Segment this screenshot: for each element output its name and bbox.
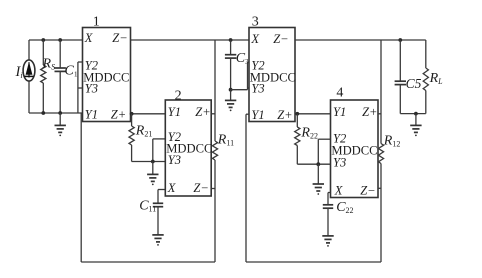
text MDDCC block 2	[166, 142, 212, 156]
ground under C22	[322, 236, 333, 247]
pin label Y2 block 1	[85, 58, 98, 72]
designator 3 for block 3	[252, 15, 259, 30]
node dot Y-tie ground block 2	[151, 160, 155, 164]
resistor R12	[378, 144, 383, 164]
pin label Y1 block 1	[85, 108, 98, 122]
svg-text:X: X	[167, 181, 177, 195]
pin label Z+ block 1	[111, 108, 126, 122]
wire feedback loop 2 bottom	[246, 261, 381, 263]
wire Z- stub block 2	[211, 188, 215, 190]
label C3	[236, 51, 249, 66]
ground under C3	[225, 90, 236, 112]
pin label Y2 block 4	[333, 131, 346, 145]
capacitor C1	[55, 40, 66, 113]
svg-text:X: X	[250, 32, 260, 46]
svg-text:Y3: Y3	[168, 153, 181, 167]
wire feedback loop 2 right / R12 branch	[380, 40, 382, 262]
capacitor C5	[395, 40, 406, 114]
svg-text:Y3: Y3	[251, 81, 264, 95]
wire R21 bottom to Y3 block 2	[132, 161, 166, 163]
wire load bottom	[400, 113, 426, 115]
node dot C3 top	[229, 38, 233, 42]
label C5	[406, 76, 422, 91]
pin label Y3 block 3	[251, 81, 264, 95]
svg-text:Y1: Y1	[251, 108, 264, 122]
wire Y2-Y3 tie block 1	[78, 62, 83, 113]
label C11	[139, 199, 156, 214]
wire feedback loop 1 left side	[80, 113, 82, 262]
ground at Y2/Y3 block 2	[147, 162, 158, 186]
pin label Z+ block 4	[362, 105, 377, 119]
node dot R22 top	[295, 112, 299, 116]
wire feedback loop 1 bottom	[81, 261, 215, 263]
resistor R22	[295, 114, 300, 164]
wire feedback loop 1 right / R11 branch	[214, 40, 216, 262]
text MDDCC block 4	[331, 143, 377, 157]
capacitor C3	[225, 40, 236, 90]
node dot load ground	[414, 112, 418, 116]
MDDCC block 1	[83, 28, 131, 122]
pin label Z+ block 2	[195, 105, 210, 119]
wire ground rail section 1	[29, 112, 83, 114]
svg-text:Y3: Y3	[333, 156, 346, 170]
node dot RS bottom	[41, 111, 45, 115]
label Ii	[15, 64, 23, 80]
pin label Z- block 4	[360, 184, 375, 198]
node dot C1 top	[58, 38, 62, 42]
pin label Y1 block 3	[251, 108, 264, 122]
capacitor C11	[153, 203, 163, 234]
ground at Y2/Y3 block 4	[313, 164, 324, 195]
wire X block 4 to C22	[328, 193, 331, 205]
MDDCC block 3	[249, 28, 295, 122]
pin label Y1 block 2	[168, 105, 181, 119]
svg-text:Z−: Z−	[273, 32, 288, 46]
svg-text:3: 3	[252, 15, 259, 30]
pin label Y2 block 3	[251, 58, 264, 72]
label C22	[336, 200, 353, 215]
text MDDCC block 1	[83, 70, 129, 84]
node dot R21 top	[130, 112, 134, 116]
designator 1 for block 1	[93, 15, 100, 30]
wire C3 bottom to Y-tie block 3	[231, 89, 248, 91]
MDDCC block 2	[165, 100, 211, 196]
pin label Y1 block 4	[333, 105, 346, 119]
designator 4 for block 4	[336, 86, 343, 101]
label RS	[42, 57, 56, 72]
node dot C3 bottom	[229, 88, 233, 92]
text MDDCC block 3	[250, 70, 296, 84]
wire top source to X1	[29, 39, 83, 41]
svg-text:Y3: Y3	[85, 81, 98, 95]
label RL	[429, 71, 444, 86]
node dot Y-tie ground block 4	[316, 162, 320, 166]
label R11	[217, 133, 234, 148]
pin label Z- block 2	[193, 181, 208, 195]
current source Ii	[23, 40, 35, 113]
svg-text:Z+: Z+	[277, 108, 292, 122]
svg-text:Y1: Y1	[168, 105, 181, 119]
wire Y2-Y3 tie block 3	[248, 62, 250, 90]
ground under load	[410, 114, 421, 137]
wire Z+ block1 to Y1 block2	[131, 113, 166, 115]
ground under C1	[55, 113, 66, 136]
wire Y1 stub block 3	[246, 113, 249, 115]
label R12	[383, 134, 401, 149]
label R21	[135, 124, 153, 139]
svg-text:Y1: Y1	[85, 108, 98, 122]
svg-text:1: 1	[93, 15, 100, 30]
wire Z+ block3 to Y1 block4	[295, 113, 331, 115]
pin label X block 2	[167, 181, 177, 195]
wire Z- stub block 4	[378, 187, 381, 189]
wire Z+ stub block 4	[378, 113, 381, 115]
svg-text:Z+: Z+	[195, 105, 210, 119]
resistor RS	[41, 40, 46, 113]
svg-text:C5: C5	[406, 76, 422, 91]
wire R22 bottom to Y3 block 4	[297, 163, 330, 165]
svg-text:Z−: Z−	[193, 181, 208, 195]
pin label Z- block 1	[112, 31, 127, 45]
wire Z- block3 to output load	[295, 39, 426, 41]
svg-text:X: X	[84, 31, 94, 45]
pin label X block 3	[250, 32, 260, 46]
pin label Z+ block 3	[277, 108, 292, 122]
pin label X block 4	[334, 184, 344, 198]
svg-text:4: 4	[336, 86, 343, 101]
wire X block 2 to C11	[158, 190, 165, 204]
svg-text:Y1: Y1	[333, 105, 346, 119]
node dot RS top	[41, 38, 45, 42]
resistor R21	[129, 114, 134, 162]
svg-text:Z+: Z+	[362, 105, 377, 119]
capacitor C22	[323, 205, 333, 236]
pin label Y3 block 2	[168, 153, 181, 167]
node dot C1 bottom	[58, 111, 62, 115]
svg-text:Z−: Z−	[360, 184, 375, 198]
label R22	[300, 126, 318, 141]
wire Y2-Y3 tie block 2	[153, 139, 166, 162]
wire Y2-Y3 tie block 4	[318, 139, 330, 164]
svg-text:2: 2	[175, 88, 182, 103]
pin label Y2 block 2	[168, 130, 181, 144]
pin label X block 1	[84, 31, 94, 45]
resistor RL	[423, 40, 428, 114]
svg-text:Z−: Z−	[112, 31, 127, 45]
wire feedback loop 2 left side	[245, 114, 247, 262]
label C1	[65, 64, 78, 79]
ground under C11	[152, 235, 163, 246]
designator 2 for block 2	[175, 88, 182, 103]
wire Z- block1 to X block3	[131, 39, 250, 41]
pin label Z- block 3	[273, 32, 288, 46]
MDDCC block 4	[331, 100, 379, 198]
svg-text:Z+: Z+	[111, 108, 126, 122]
svg-text:X: X	[334, 184, 344, 198]
wire Z+ stub block 2	[211, 113, 215, 115]
node dot C5 top	[398, 38, 402, 42]
resistor R11	[212, 141, 217, 160]
pin label Y3 block 1	[85, 81, 98, 95]
pin label Y3 block 4	[333, 156, 346, 170]
